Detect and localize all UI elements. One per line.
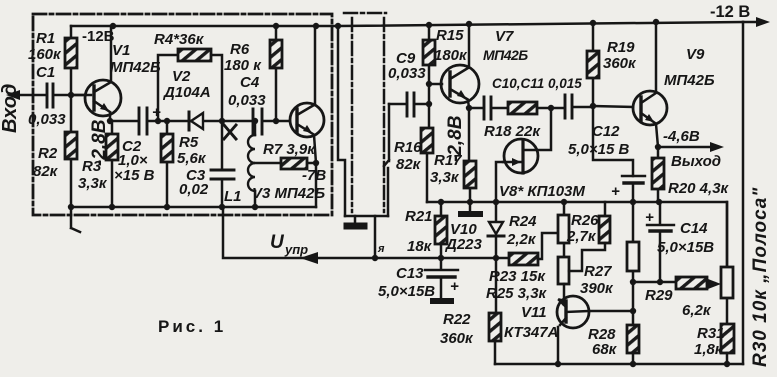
svg-text:82к: 82к: [396, 156, 422, 173]
capacitor C13: [440, 258, 443, 298]
svg-text:R3: R3: [82, 158, 102, 175]
svg-text:390к: 390к: [580, 280, 614, 297]
svg-text:R7 3,9к: R7 3,9к: [263, 141, 316, 158]
wire V9 base: [593, 106, 633, 107]
transistor V8: [504, 139, 538, 173]
svg-text:R26: R26: [571, 212, 599, 229]
svg-text:0,033: 0,033: [28, 111, 66, 128]
svg-text:0,033: 0,033: [228, 92, 266, 109]
svg-text:180к: 180к: [434, 47, 468, 64]
svg-text:V3 МП42Б: V3 МП42Б: [252, 185, 325, 202]
svg-text:МП42Б: МП42Б: [664, 72, 715, 89]
resistor R18: [508, 102, 537, 114]
resistor R7: [255, 162, 316, 165]
wire AF bus (C2 line): [110, 120, 290, 123]
diode V2: [188, 112, 191, 130]
wire output arrow: [658, 146, 716, 149]
svg-text:3,3к: 3,3к: [430, 169, 460, 186]
wire -12V arrow right end: [743, 21, 763, 24]
resistor R22: [495, 258, 496, 364]
svg-text:V7: V7: [495, 28, 514, 45]
potentiometer R30: [726, 202, 729, 324]
svg-text:я: я: [377, 243, 385, 255]
node R4 left leg: [155, 118, 161, 124]
capacitor C4: [253, 109, 262, 134]
svg-text:68к: 68к: [592, 341, 618, 358]
svg-text:С1: С1: [36, 64, 55, 81]
wire Uupr: [223, 207, 441, 258]
svg-text:0,033: 0,033: [388, 65, 426, 82]
svg-text:С10,С11 0,015: С10,С11 0,015: [492, 76, 582, 91]
wire base column V7: [428, 84, 431, 128]
svg-text:1,8к: 1,8к: [694, 341, 724, 358]
svg-text:V1: V1: [112, 42, 130, 59]
capacitor C14: [659, 202, 662, 282]
svg-text:+: +: [611, 183, 620, 200]
resistor R31: [721, 324, 734, 353]
svg-text:С13: С13: [396, 265, 424, 282]
svg-text:R24: R24: [509, 213, 537, 230]
resistor R28: [632, 311, 635, 364]
svg-text:Д223: Д223: [444, 236, 483, 253]
svg-text:V11: V11: [521, 304, 547, 321]
svg-text:160к: 160к: [28, 46, 62, 63]
node V11 emitter on rail: [555, 361, 561, 367]
svg-text:R27: R27: [584, 263, 612, 280]
svg-text:L1: L1: [224, 188, 242, 205]
svg-text:R18 22к: R18 22к: [484, 123, 541, 140]
svg-text:5,0×15В: 5,0×15В: [378, 283, 435, 300]
ground mid rail: [469, 202, 472, 211]
svg-text:5,0×15 В: 5,0×15 В: [568, 141, 629, 158]
resistor R23: [509, 253, 538, 265]
wire right edge: [742, 22, 745, 364]
mark x (selection cross): [224, 125, 236, 139]
svg-text:R6: R6: [230, 41, 250, 58]
capacitor C1: [47, 84, 53, 107]
transistor V3: [290, 103, 324, 137]
wire bottom rail right block: [495, 363, 743, 366]
wire shield bottom: [345, 215, 388, 218]
svg-text:360к: 360к: [603, 55, 637, 72]
svg-text:R21: R21: [405, 208, 433, 225]
node V7 emitter: [466, 105, 472, 111]
svg-text:R22: R22: [443, 311, 471, 328]
resistor R15: [428, 25, 431, 84]
svg-text:МП42Б: МП42Б: [483, 47, 528, 63]
node R27 R29: [630, 279, 636, 285]
shield box (dash-dot, narrow cable shield): [344, 13, 386, 212]
svg-text:6,2к: 6,2к: [682, 302, 712, 319]
svg-text:R20 4,3к: R20 4,3к: [668, 180, 730, 197]
wire -12V top rail: [71, 22, 743, 26]
svg-text:+: +: [450, 278, 459, 295]
svg-text:С14: С14: [680, 220, 708, 237]
wire C10 R18 C11: [469, 107, 593, 108]
ground C13: [433, 298, 451, 304]
wire shielded link left conductor: [338, 26, 345, 216]
transistor V9: [633, 91, 667, 125]
svg-text:-4,6В: -4,6В: [663, 128, 700, 145]
svg-text:2,2к: 2,2к: [506, 231, 537, 248]
svg-text:R23 15к: R23 15к: [489, 268, 546, 285]
svg-text:V8* КП103М: V8* КП103М: [499, 183, 585, 200]
resistor R19: [592, 23, 595, 106]
wire input: [12, 94, 85, 97]
svg-text:КТ347А: КТ347А: [504, 324, 558, 341]
ground stub below left box: [71, 207, 80, 232]
inductor L1: [254, 121, 257, 207]
shield box (dash-dot enclosure, left block): [33, 14, 332, 215]
svg-text:-12В: -12В: [82, 28, 115, 45]
svg-text:5,6к: 5,6к: [177, 150, 207, 167]
capacitor C10: [484, 97, 491, 119]
svg-text:Д104А: Д104А: [162, 84, 211, 101]
transistor V7: [441, 65, 479, 103]
capacitor C3: [221, 121, 224, 207]
resistor R20: [657, 147, 660, 202]
svg-text:18к: 18к: [407, 238, 433, 255]
resistor R17: [469, 108, 470, 202]
svg-text:Вход: Вход: [0, 84, 21, 133]
svg-text:упр: упр: [284, 242, 308, 257]
svg-text:U: U: [270, 232, 285, 253]
resistor R1: [70, 26, 73, 95]
svg-text:-12 В: -12 В: [710, 3, 750, 21]
svg-text:-7В: -7В: [302, 167, 326, 184]
capacitor C9: [389, 103, 429, 106]
svg-text:5,0×15В: 5,0×15В: [657, 239, 714, 256]
resistor R27: [632, 202, 635, 282]
svg-text:С4: С4: [240, 74, 260, 91]
node mid rail junctions: [438, 199, 662, 205]
transistor V11: [557, 296, 589, 328]
wire bottom rail left block: [71, 206, 316, 209]
resistor R6: [275, 26, 278, 122]
node Uupr C13 R21: [438, 255, 444, 261]
svg-text:R15: R15: [436, 27, 464, 44]
svg-text:+: +: [645, 209, 654, 226]
svg-text:R29: R29: [645, 287, 673, 304]
svg-text:R1: R1: [36, 30, 55, 47]
node Uupr shield tap: [372, 255, 378, 261]
node V3 emitter: [313, 160, 319, 166]
resistor R29 with arrow to R30: [633, 281, 676, 284]
node V7 base: [426, 81, 432, 87]
resistor R5: [166, 121, 169, 207]
svg-text:×15 В: ×15 В: [114, 167, 155, 184]
resistor R25: [558, 257, 569, 284]
svg-text:0,02: 0,02: [179, 181, 209, 198]
svg-text:V2: V2: [172, 68, 191, 85]
node top rail junctions: [110, 19, 659, 29]
capacitor C11: [565, 95, 572, 118]
resistor R3: [111, 121, 114, 207]
resistor R16: [421, 128, 433, 153]
svg-text:+: +: [152, 104, 161, 121]
svg-text:V9: V9: [686, 46, 705, 63]
svg-text:Выход: Выход: [671, 153, 721, 170]
node C3 top: [219, 118, 225, 124]
resistor R2: [70, 95, 73, 207]
svg-text:360к: 360к: [440, 330, 474, 347]
wire mid rail: [427, 202, 727, 267]
svg-text:2,7к: 2,7к: [566, 228, 597, 245]
node V9 base column: [590, 103, 596, 109]
node bottom rail junctions left: [68, 204, 258, 210]
svg-text:-2,8В: -2,8В: [445, 115, 466, 162]
node V9 emitter output: [655, 144, 661, 150]
svg-text:R30 10к „Полоса": R30 10к „Полоса": [750, 187, 771, 367]
resistor R4: [158, 55, 222, 121]
svg-text:3,3к: 3,3к: [78, 175, 108, 192]
wire control tap to Uupr: [374, 216, 377, 258]
transistor V1: [85, 80, 121, 116]
svg-text:R5: R5: [179, 134, 199, 151]
svg-text:R19: R19: [607, 39, 635, 56]
svg-text:R16: R16: [394, 139, 422, 156]
svg-text:R4*36к: R4*36к: [154, 31, 205, 48]
resistor R26: [604, 202, 607, 216]
capacitor C2: [139, 108, 147, 134]
node base V1: [68, 92, 74, 98]
svg-text:С12: С12: [592, 123, 620, 140]
capacitor C12: [593, 106, 633, 202]
wire Uupr to R23: [441, 257, 509, 260]
node V3 base: [273, 118, 279, 124]
diode V10: [495, 202, 498, 258]
resistor R21: [440, 202, 443, 258]
wire V3 emitter to bottom rail: [315, 163, 318, 207]
node V1 emitter: [107, 118, 113, 124]
ground shield: [354, 216, 357, 223]
resistor R24: [563, 202, 566, 257]
node R5 top: [164, 118, 170, 124]
svg-text:Рис. 1: Рис. 1: [158, 317, 226, 336]
wire R29 feed: [632, 282, 635, 311]
svg-text:R2: R2: [38, 145, 58, 162]
svg-text:МП42Б: МП42Б: [110, 59, 161, 76]
wire shielded link right conductor: [384, 104, 389, 216]
svg-text:82к: 82к: [33, 163, 59, 180]
svg-text:R25 3,3к: R25 3,3к: [486, 285, 548, 302]
svg-text:R31: R31: [697, 325, 725, 342]
svg-text:180 к: 180 к: [224, 57, 262, 74]
